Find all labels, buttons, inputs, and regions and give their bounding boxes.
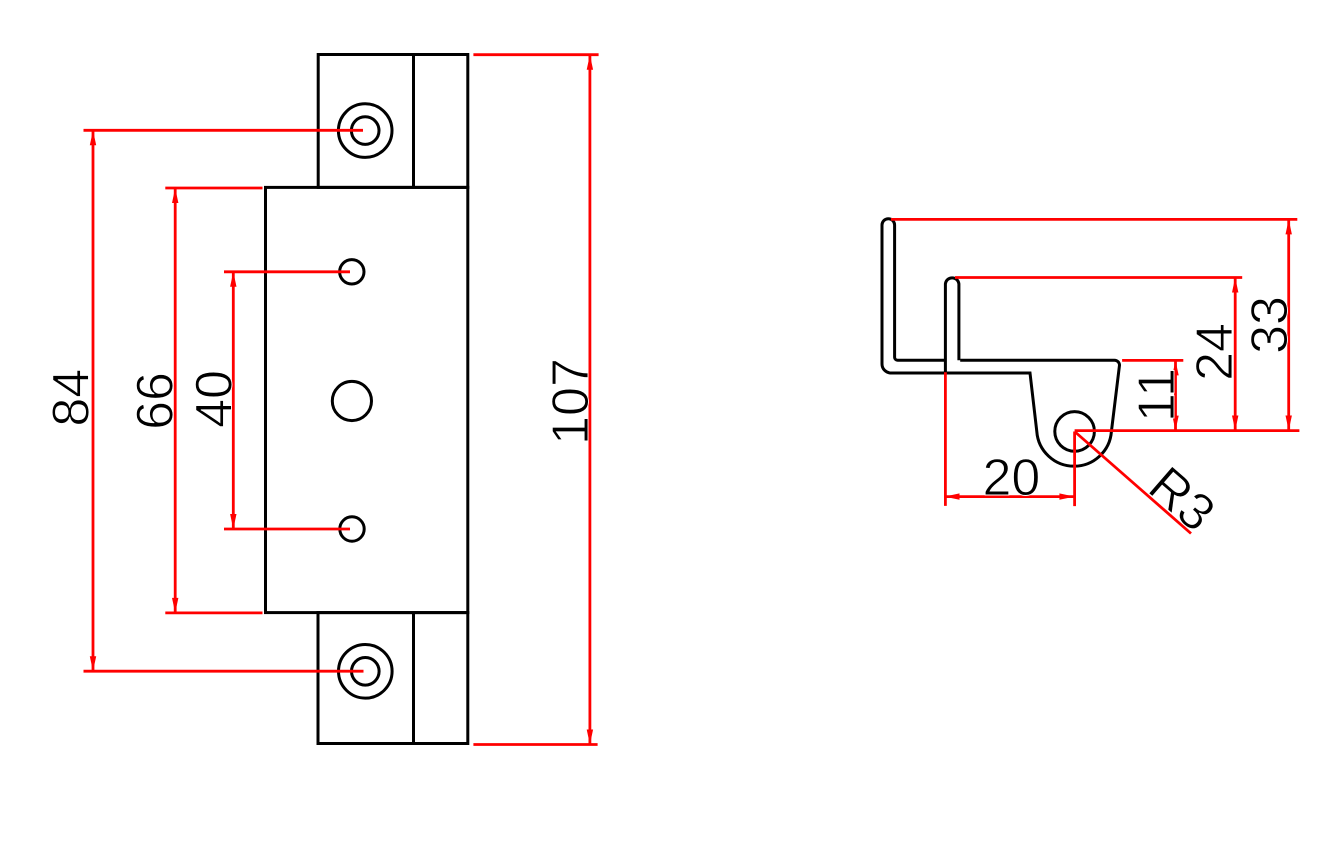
svg-text:40: 40: [186, 370, 244, 428]
svg-text:11: 11: [1128, 368, 1186, 422]
arrow 40 down: [230, 514, 236, 529]
svg-text:66: 66: [127, 372, 185, 430]
ext line 107 bottom: [473, 743, 597, 746]
dim line 33: [1287, 219, 1290, 430]
arrow 84 up: [90, 130, 96, 145]
arrow 107 up: [587, 55, 593, 70]
ext line 107 top: [473, 53, 598, 56]
text 33: [1241, 296, 1299, 354]
arrow 66 down: [172, 598, 178, 613]
small hole lower: [340, 517, 364, 541]
arrow 107 down: [587, 730, 593, 745]
ext line 40 top (to small hole center): [224, 270, 350, 273]
svg-text:24: 24: [1186, 323, 1244, 381]
ext line 66 bottom: [165, 612, 262, 615]
center hole: [332, 381, 371, 420]
ext line 40 bottom (to small hole center): [224, 528, 350, 531]
bend line top tab: [412, 55, 415, 188]
ext line 24 top (from flange cap): [955, 276, 1242, 279]
text 40: [186, 370, 244, 428]
ext line 84 bottom (to bottom hole center): [84, 670, 364, 673]
dim line 107: [589, 55, 592, 745]
dim line 20: [945, 495, 1075, 498]
arrowheads: [90, 55, 1292, 745]
arrow 24 up: [1232, 278, 1238, 293]
arrow 84 down: [90, 656, 96, 671]
dim line 11: [1174, 360, 1177, 430]
svg-text:84: 84: [42, 369, 100, 427]
bend line bottom tab: [412, 613, 415, 744]
ext line 84 top (to top hole center): [84, 129, 364, 132]
text 66: [127, 372, 185, 430]
svg-text:33: 33: [1241, 296, 1299, 354]
ext line 20 right (pin center extended down): [1073, 432, 1076, 507]
text R3: [1138, 456, 1226, 543]
arrow 33 up: [1286, 219, 1292, 234]
countersunk hole bottom inner: [352, 658, 380, 686]
countersunk hole top outer: [338, 104, 392, 158]
dim line 40: [232, 272, 235, 529]
text 24: [1186, 323, 1244, 381]
svg-text:107: 107: [542, 358, 600, 445]
ext line 11 top (plate top surface): [1122, 359, 1183, 362]
flange hairpin (second sheet end): [945, 278, 959, 373]
arrow 66 up: [172, 188, 178, 203]
countersunk hole top inner: [351, 117, 379, 145]
arrow 20 left: [945, 493, 960, 499]
svg-text:R3: R3: [1138, 456, 1226, 543]
arrow 33 down: [1286, 416, 1292, 431]
top tab outline: [318, 55, 468, 188]
pin hole circle: [1055, 412, 1095, 452]
bottom reference line through pin center: [1075, 429, 1300, 432]
text 11: [1128, 368, 1186, 422]
main body outline: [266, 187, 468, 612]
small hole upper: [340, 260, 364, 284]
ext line 20 left (flange face extended down): [944, 372, 947, 506]
text 84: [42, 369, 100, 427]
svg-text:20: 20: [982, 449, 1040, 507]
dim line 66: [174, 188, 177, 613]
ext line 33 top (from sheet end cap): [891, 218, 1297, 221]
arrow 20 right: [1059, 493, 1074, 499]
sheet end cap + left verticals + inner bend + inner bottom surface seg1: [882, 219, 944, 364]
countersunk hole bottom outer: [339, 645, 393, 699]
text 107: [542, 358, 600, 445]
dim line 24: [1234, 278, 1237, 431]
arrow 11 up: [1172, 360, 1178, 375]
leader line R3: [1075, 432, 1191, 534]
arrow 24 down: [1232, 416, 1238, 431]
dim line 84: [92, 130, 95, 671]
outer bend + bottom surface + knuckle lobe + top surface seg2: [882, 360, 1120, 466]
bottom tab outline: [318, 613, 468, 744]
ext line 66 top: [165, 187, 262, 190]
arrow 40 up: [230, 272, 236, 287]
arrow 11 down: [1172, 416, 1178, 431]
